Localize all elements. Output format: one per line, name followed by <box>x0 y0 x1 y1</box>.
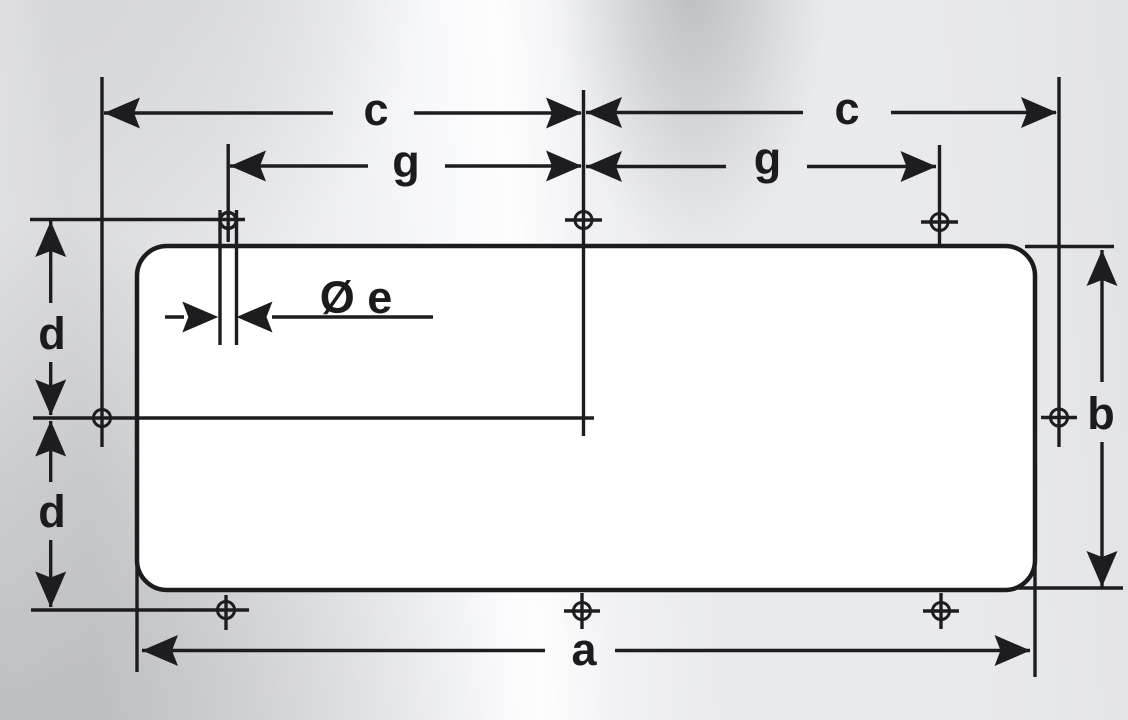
hole bottom-right crosshair <box>923 593 959 629</box>
extension line g right <box>938 145 941 244</box>
svg-text:c: c <box>363 84 388 135</box>
svg-text:d: d <box>38 486 66 537</box>
dimension hole diameter e <box>165 302 433 333</box>
datum line top-left <box>30 218 245 221</box>
dimension d upper <box>35 221 66 416</box>
dimension a <box>142 635 1031 666</box>
hole bottom-center crosshair <box>564 593 600 629</box>
svg-text:Ø e: Ø e <box>320 272 393 323</box>
dimension g right <box>586 151 937 182</box>
datum line bottom-left <box>31 608 249 611</box>
hole bottom-left crosshair <box>218 595 235 630</box>
svg-text:b: b <box>1087 388 1115 439</box>
hole mid-right crosshair <box>1041 409 1077 426</box>
hole top-center crosshair <box>565 212 602 229</box>
svg-text:d: d <box>38 308 66 359</box>
svg-text:g: g <box>754 133 782 184</box>
svg-text:c: c <box>834 83 859 134</box>
extension line left <box>100 77 103 447</box>
dimension d lower <box>35 421 66 608</box>
hole top-left crosshair <box>220 212 236 228</box>
dimension b <box>1087 250 1118 587</box>
extension line g left <box>226 144 229 242</box>
dimension g left <box>230 151 582 182</box>
datum line b top <box>1025 245 1114 248</box>
svg-text:g: g <box>392 136 420 187</box>
extension line a left <box>135 558 138 672</box>
extension line a right <box>1033 556 1036 677</box>
hole diameter line right <box>235 210 238 345</box>
plate outline <box>137 246 1035 590</box>
vertical centerline <box>582 90 585 436</box>
svg-text:a: a <box>571 624 597 675</box>
datum line b bottom <box>1018 586 1123 589</box>
horizontal centerline <box>33 416 594 419</box>
dimension c right <box>586 97 1057 128</box>
hole top-right crosshair <box>921 214 958 231</box>
extension line right <box>1057 77 1060 447</box>
hole diameter line left <box>218 210 221 345</box>
hole mid-left crosshair <box>94 410 111 427</box>
dimension c left <box>104 98 582 129</box>
